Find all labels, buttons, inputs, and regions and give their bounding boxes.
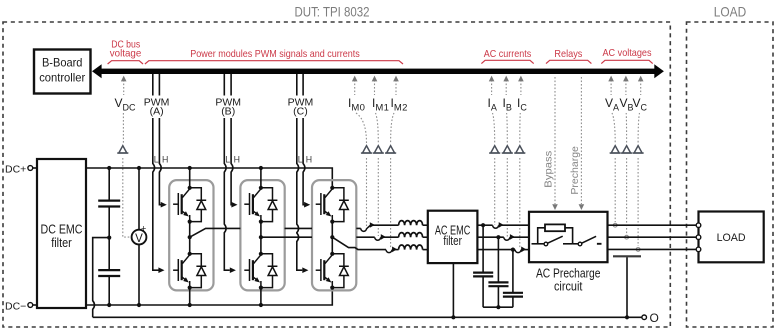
- inductor L2 phase B: [399, 233, 423, 238]
- terminal neutral O: [642, 315, 647, 320]
- wire phase A to precharge: [499, 224, 529, 226]
- isolation triangle IM1 channel: [373, 146, 384, 153]
- current sensor IC on phase C: [515, 247, 526, 253]
- svg-text:DC−: DC−: [5, 300, 26, 312]
- measurement line IA (dashed): [492, 80, 495, 225]
- wire phase B inductor to AC EMC filter: [423, 236, 428, 238]
- wire phase C from module 3 midpoint: [332, 237, 386, 249]
- wire neutral drop to return: [626, 257, 628, 317]
- wire module 3 collector drop: [331, 185, 333, 188]
- PWM (A) signal pair from bus: [153, 74, 160, 96]
- brace DC bus voltage: [108, 61, 143, 64]
- node DC- rail / module 1 emitter: [188, 303, 192, 307]
- voltmeter V (DC bus): [132, 168, 147, 305]
- isolation triangle IM0 channel: [361, 146, 372, 153]
- capacitor C5 (phase C filter): [503, 250, 523, 308]
- wire DC- terminal to filter: [33, 304, 37, 306]
- node DC- rail / module 2 emitter: [259, 303, 263, 307]
- relay K2 line contact: [573, 243, 579, 245]
- relay K1 bypass contact: [544, 242, 548, 246]
- transistor Q2 IGBT module 1 low side with diode D2: [173, 252, 206, 290]
- current sensor IM0 on phase A: [361, 225, 371, 231]
- node DC- rail / voltmeter: [137, 303, 141, 307]
- svg-text:LOAD: LOAD: [717, 232, 746, 244]
- svg-text:Precharge: Precharge: [569, 146, 581, 195]
- wire PWM B low-side gate line L: [224, 118, 230, 270]
- wire module 2 emitter to DC- rail: [260, 288, 262, 305]
- terminal DC+: [28, 166, 33, 171]
- wire DC midpoint to neutral drop: [93, 238, 110, 318]
- node DC link midpoint: [107, 236, 111, 240]
- svg-text:H: H: [162, 154, 168, 164]
- wire phase C inductor to AC EMC filter: [423, 249, 428, 251]
- svg-text:V: V: [135, 233, 143, 245]
- terminal load phase B: [696, 235, 701, 240]
- terminal load phase A: [696, 223, 701, 228]
- relay control line Precharge (dashed, arrow down): [580, 77, 582, 204]
- brace AC currents: [481, 60, 533, 63]
- measurement line IC (dashed): [520, 80, 521, 249]
- measurement line VC (dashed): [638, 80, 641, 246]
- svg-text:AC Precharge: AC Precharge: [536, 267, 601, 281]
- transistor Q6 IGBT module 3 low side with diode D6: [316, 252, 349, 290]
- capacitor C3 (phase A filter): [473, 225, 493, 307]
- wire PWM C high-side gate line H: [303, 118, 305, 205]
- transistor Q1 IGBT module 1 high side with diode D1: [173, 186, 206, 224]
- isolation triangle VDC channel: [117, 146, 128, 153]
- PWM (B) signal pair from bus: [224, 74, 231, 96]
- svg-text:(A): (A): [150, 106, 164, 118]
- measurement line VB (dashed): [625, 80, 628, 234]
- svg-text:Bypass: Bypass: [543, 151, 555, 188]
- svg-text:L: L: [225, 154, 230, 164]
- power module 1 (phase A half-bridge): [169, 180, 213, 290]
- isolation triangle IC channel: [514, 146, 525, 153]
- measurement line IM2 (dashed): [391, 80, 396, 248]
- svg-text:DC+: DC+: [5, 163, 26, 175]
- measurement line VA (dashed): [611, 80, 615, 222]
- wire phase C to inductor: [392, 249, 399, 251]
- measurement line IB (dashed): [506, 80, 507, 237]
- DC EMC filter box FL1: [37, 159, 86, 308]
- svg-text:(C): (C): [293, 106, 308, 118]
- current sensor IM2 on phase C: [386, 247, 397, 253]
- brace Relays: [546, 60, 591, 63]
- isolation triangle VA channel: [610, 146, 621, 153]
- wire PWM A high-side gate line H: [159, 118, 161, 205]
- wire phase B to precharge: [510, 236, 529, 238]
- svg-text:H: H: [306, 154, 312, 164]
- wire module 1 emitter to DC- rail: [189, 288, 191, 305]
- isolation triangle IA channel: [489, 146, 500, 153]
- LOAD dashed boundary box: [687, 22, 774, 327]
- wire DC- rail: [86, 288, 332, 305]
- node module 3 phase midpoint: [330, 235, 334, 239]
- svg-text:+: +: [141, 224, 146, 234]
- measurement line VDC (dashed): [123, 80, 131, 237]
- node DC+ rail / voltmeter: [137, 166, 141, 170]
- svg-text:Power modules PWM signals and: Power modules PWM signals and currents: [190, 48, 360, 60]
- svg-text:AC voltages: AC voltages: [603, 47, 652, 59]
- capacitor C1 (DC link upper): [98, 168, 120, 238]
- wire module 1 emitter to midpoint: [189, 222, 191, 254]
- current sensor IB on phase B: [504, 234, 515, 240]
- AC Precharge circuit box: [529, 212, 608, 262]
- node DC+ rail / module 1 collector: [188, 166, 192, 170]
- wire phase A to inductor: [370, 224, 398, 226]
- node module 2 phase midpoint: [259, 235, 263, 239]
- transistor Q3 IGBT module 2 high side with diode D3: [244, 186, 277, 224]
- svg-text:DC EMC: DC EMC: [41, 223, 83, 237]
- transistor Q5 IGBT module 3 high side with diode D5: [316, 186, 349, 224]
- isolation triangle IM2 channel: [385, 146, 396, 153]
- wire phase C filter output: [477, 249, 515, 251]
- wire module 1 collector drop: [189, 168, 191, 188]
- svg-text:voltage: voltage: [110, 47, 142, 59]
- node phase C filter capacitor tap: [511, 248, 515, 252]
- probe circle VC on phase C: [636, 248, 640, 252]
- current sensor IM1 on phase B: [375, 234, 386, 240]
- power module 3 (phase C half-bridge): [312, 180, 356, 290]
- wire phase B precharge to load: [608, 236, 697, 238]
- brace Power modules PWM signals and currents: [145, 61, 403, 64]
- measurement line IM0 (dashed): [355, 80, 367, 226]
- wire phase B filter output: [477, 236, 503, 238]
- wire precharge input stub: [532, 243, 544, 245]
- relay control line Bypass (dashed, arrow down): [554, 77, 556, 204]
- inductor L3 phase C: [399, 245, 423, 250]
- signal bus double arrow: [92, 64, 664, 78]
- power module 2 (phase B half-bridge): [240, 180, 284, 290]
- wire neutral return line: [93, 316, 642, 318]
- AC EMC filter box FL2: [428, 211, 478, 263]
- wire phase C to precharge: [521, 249, 529, 251]
- wire module 2 emitter to midpoint: [260, 222, 262, 254]
- svg-text:L: L: [154, 154, 159, 164]
- terminal load phase C: [696, 247, 701, 252]
- wire PWM C low-side gate line L: [297, 118, 303, 270]
- svg-text:controller: controller: [39, 71, 85, 85]
- wire DC+ terminal to filter: [33, 167, 37, 169]
- node DC+ rail / module 2 collector: [259, 166, 263, 170]
- svg-text:filter: filter: [443, 234, 462, 248]
- DUT dashed boundary box: [3, 22, 670, 327]
- node phase A filter capacitor tap: [481, 223, 485, 227]
- node DC+ rail / DC-link capacitor: [107, 166, 111, 170]
- wire module 3 emitter to midpoint: [331, 222, 333, 254]
- resistor R1 precharge: [538, 224, 573, 243]
- svg-text:(B): (B): [221, 106, 235, 118]
- probe circle VB on phase B: [625, 235, 629, 239]
- svg-text:H: H: [234, 154, 240, 164]
- svg-text:DUT: TPI 8032: DUT: TPI 8032: [295, 4, 370, 20]
- capacitor C2 (DC link lower): [98, 238, 120, 305]
- wire phase B to inductor: [381, 236, 399, 238]
- wire filter capacitor common: [483, 306, 513, 308]
- current sensor IA on phase A: [493, 222, 504, 228]
- wire phase A precharge to load: [608, 224, 697, 226]
- isolation triangle VB channel: [621, 146, 632, 153]
- wire phase C precharge to load: [608, 248, 697, 250]
- label DC bus voltage (red): [110, 39, 142, 60]
- svg-text:Relays: Relays: [554, 48, 582, 60]
- node neutral / AC EMC filter tap: [451, 315, 455, 319]
- wire phase A filter output: [477, 224, 492, 226]
- wire phase A inductor to AC EMC filter: [423, 224, 428, 226]
- probe circle VA on phase A: [613, 223, 617, 227]
- wire PWM B high-side gate line H: [231, 118, 233, 205]
- B-Board controller box U1: [34, 50, 91, 94]
- svg-text:O: O: [650, 311, 659, 325]
- node filter capacitor common: [496, 305, 500, 309]
- wire phase B from module 2 midpoint: [261, 236, 375, 238]
- node DC- rail / DC-link capacitor: [107, 303, 111, 307]
- isolation triangle IB channel: [502, 146, 513, 153]
- svg-text:L: L: [298, 154, 303, 164]
- svg-text:LOAD: LOAD: [714, 4, 747, 20]
- wire DC+ rail: [86, 168, 332, 186]
- wire module 2 collector drop: [260, 168, 262, 188]
- brace AC voltages: [601, 60, 652, 63]
- wire PWM A low-side gate line L: [153, 118, 159, 270]
- capacitor C4 (phase B filter): [488, 237, 508, 307]
- node neutral / phase C capacitor: [625, 315, 629, 319]
- isolation triangle VC channel: [633, 146, 644, 153]
- svg-text:filter: filter: [51, 236, 72, 250]
- node module 1 phase midpoint: [188, 235, 192, 239]
- transistor Q4 IGBT module 2 low side with diode D4: [244, 252, 277, 290]
- measurement line IM1 (dashed): [375, 80, 379, 236]
- node phase B filter capacitor tap: [496, 235, 500, 239]
- PWM (C) signal pair from bus: [297, 74, 303, 96]
- inductor L1 phase A: [399, 221, 423, 226]
- svg-text:circuit: circuit: [554, 280, 583, 294]
- terminal DC-: [28, 303, 33, 308]
- LOAD box: [699, 212, 764, 263]
- wire AC EMC filter ground tap: [452, 263, 454, 317]
- wire phase A from module 1 midpoint: [190, 228, 361, 237]
- svg-text:B-Board: B-Board: [42, 56, 83, 70]
- svg-text:AC currents: AC currents: [484, 48, 532, 60]
- capacitor C6 neutral plate: [613, 255, 641, 257]
